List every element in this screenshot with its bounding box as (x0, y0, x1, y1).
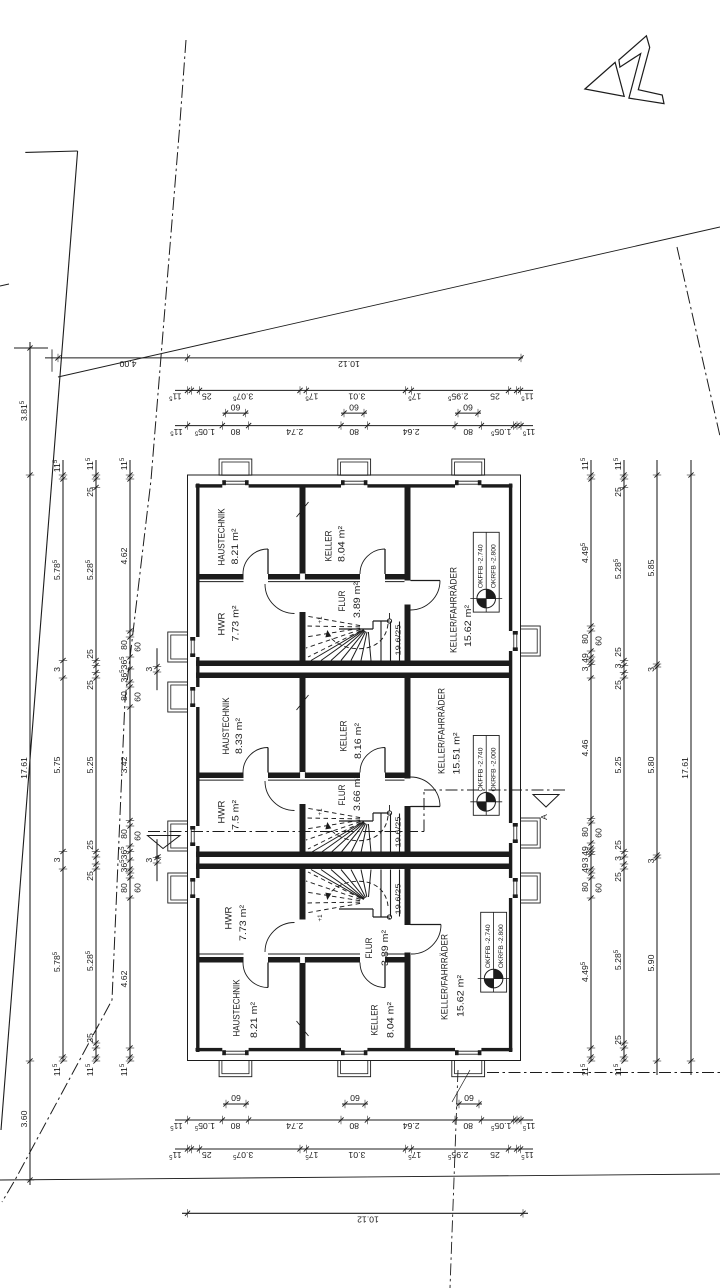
room label Keller/Fahrraeder U3 (439, 934, 466, 1020)
room label Flur U1 (337, 581, 363, 618)
svg-text:60: 60 (593, 883, 603, 893)
interior wall horizontal unit2 (200, 772, 405, 780)
svg-text:5.90: 5.90 (646, 954, 656, 971)
svg-text:HAUSTECHNIK: HAUSTECHNIK (221, 697, 232, 754)
svg-text:25: 25 (613, 647, 623, 657)
svg-text:3: 3 (580, 666, 590, 671)
svg-text:4.46: 4.46 (580, 739, 590, 756)
svg-text:80: 80 (231, 1121, 241, 1131)
svg-text:60: 60 (593, 828, 603, 838)
exterior wall bottom inner leaf (196, 1048, 513, 1051)
room label Keller U3 (369, 1001, 396, 1038)
window left HWR U1 with light well (168, 632, 195, 662)
svg-text:5.80: 5.80 (646, 756, 656, 773)
svg-text:HAUSTECHNIK: HAUSTECHNIK (216, 508, 227, 565)
dimension chain top window spacing (170, 421, 536, 436)
svg-text:7.73 m²: 7.73 m² (230, 605, 241, 642)
svg-text:KELLER/FAHRRÄDER: KELLER/FAHRRÄDER (436, 688, 447, 774)
window right KF U3 with light well (513, 873, 540, 903)
svg-text:80: 80 (119, 691, 129, 701)
svg-text:3.66 m²: 3.66 m² (352, 774, 363, 811)
svg-text:60: 60 (349, 402, 359, 412)
door Haustechnik U3 (243, 963, 268, 988)
wall A unit2 stair stub (300, 804, 306, 852)
svg-text:25: 25 (85, 840, 95, 850)
door Keller U3 (360, 963, 385, 988)
wall B unit2 lower (405, 806, 411, 852)
svg-text:OKFFB -2.740: OKFFB -2.740 (478, 544, 485, 589)
exterior wall right inner leaf (509, 484, 512, 1053)
svg-text:OKFFB -2.740: OKFFB -2.740 (485, 924, 492, 969)
svg-text:2.74: 2.74 (286, 1121, 303, 1131)
svg-text:3.89 m²: 3.89 m² (380, 929, 391, 966)
north arrow N glyph (619, 36, 664, 104)
svg-text:KELLER: KELLER (338, 720, 349, 751)
window left Haustechnik U2 with light well (168, 682, 195, 712)
svg-text:25: 25 (613, 872, 623, 882)
svg-text:3.01: 3.01 (348, 392, 365, 402)
window W1 bottom (Haustechnik U3) with light well (219, 1050, 252, 1077)
dimension chain bottom room widths (169, 1145, 534, 1160)
svg-text:8.21 m²: 8.21 m² (230, 528, 241, 565)
svg-text:15.51 m²: 15.51 m² (451, 732, 462, 775)
svg-text:OKRFB -2.800: OKRFB -2.800 (491, 544, 498, 589)
svg-text:60: 60 (350, 1093, 360, 1103)
dimension chain left party joints (3) (144, 648, 161, 881)
svg-text:8.33 m²: 8.33 m² (234, 717, 245, 754)
dimension chain left unit heights (52, 459, 67, 1076)
svg-text:60: 60 (593, 636, 603, 646)
svg-text:80: 80 (231, 427, 241, 437)
svg-text:5.75: 5.75 (52, 756, 62, 773)
room label Keller U1 (323, 525, 347, 562)
window W1 top (Haustechnik U1) with light well (219, 459, 252, 485)
svg-text:4.00: 4.00 (119, 359, 136, 369)
room label Keller/Fahrraeder U2 (436, 688, 462, 775)
svg-text:15.62 m²: 15.62 m² (455, 974, 466, 1017)
svg-text:60: 60 (231, 402, 241, 412)
svg-text:80: 80 (463, 1121, 473, 1131)
svg-text:7.5 m²: 7.5 m² (230, 799, 241, 830)
svg-text:80: 80 (119, 883, 129, 893)
svg-text:3: 3 (144, 667, 154, 672)
svg-text:4.62: 4.62 (119, 970, 129, 987)
dimension chain bottom total (10.12) (182, 1209, 528, 1224)
svg-text:25: 25 (202, 1150, 212, 1160)
level stamp U1 (OKFFB/OKRFB) (470, 532, 502, 612)
svg-text:3.89 m²: 3.89 m² (352, 581, 363, 618)
svg-text:KELLER/FAHRRÄDER: KELLER/FAHRRÄDER (448, 567, 459, 653)
svg-text:+1: +1 (317, 808, 324, 816)
window W2 top (Keller U1) with light well (338, 459, 371, 485)
svg-text:80: 80 (463, 427, 473, 437)
svg-text:5.25: 5.25 (85, 756, 95, 773)
window left HWR U3 with light well (168, 873, 195, 903)
svg-text:17.61: 17.61 (680, 757, 690, 779)
leader line at bottom light well (452, 1070, 470, 1102)
window right KF U1 with light well (513, 626, 540, 656)
svg-text:A: A (539, 814, 549, 820)
north arrow triangle (585, 62, 624, 96)
svg-text:3: 3 (52, 857, 62, 862)
stair unit3 (winder, 19.6/25) (306, 870, 403, 922)
shaft mark unit2 (297, 695, 309, 710)
door Haustechnik U1 (243, 549, 268, 574)
room label HWR U1 (216, 605, 241, 642)
svg-text:3: 3 (646, 858, 656, 863)
window W2 bottom (Keller U3) with light well (338, 1050, 371, 1077)
svg-text:3: 3 (580, 857, 590, 862)
svg-text:7.73 m²: 7.73 m² (238, 904, 249, 941)
room label Flur U2 (337, 774, 363, 811)
party wall 2 (double leaf) (196, 852, 512, 870)
svg-text:KELLER: KELLER (323, 530, 334, 561)
level stamp U2 (OKFFB/OKRFB) (470, 736, 502, 816)
svg-text:HWR: HWR (216, 800, 227, 823)
interior wall horizontal unit3 (200, 954, 405, 963)
site boundary diagonal line upper (solid) (58, 227, 720, 377)
door Keller U2 (360, 748, 385, 773)
wall B unit2 upper (405, 678, 411, 779)
shaft mark unit1 (297, 502, 309, 517)
svg-text:80: 80 (349, 1121, 359, 1131)
dimension chain top window widths (60) (223, 402, 482, 417)
svg-text:OKRFB -2.000: OKRFB -2.000 (491, 747, 498, 792)
svg-text:60: 60 (231, 1093, 241, 1103)
svg-text:25: 25 (613, 680, 623, 690)
room label Haustechnik U1 (216, 508, 241, 565)
svg-text:19.6/25: 19.6/25 (394, 884, 403, 915)
exterior wall top inner leaf (196, 484, 513, 487)
interior wall horizontal unit1 (200, 574, 405, 582)
window right KF U2 with light well (513, 818, 540, 848)
svg-text:FLUR: FLUR (337, 590, 348, 611)
svg-text:3: 3 (613, 856, 623, 861)
dimension chain bottom window widths (60) (223, 1093, 482, 1108)
section marker A left (148, 836, 181, 860)
svg-text:80: 80 (349, 427, 359, 437)
svg-text:KELLER/FAHRRÄDER: KELLER/FAHRRÄDER (439, 934, 450, 1020)
svg-text:5.85: 5.85 (646, 559, 656, 576)
small boundary tick left edge (0, 284, 9, 286)
svg-text:25: 25 (85, 871, 95, 881)
svg-text:60: 60 (132, 831, 142, 841)
svg-text:5.25: 5.25 (613, 756, 623, 773)
dimension chain top total (4.00 / 10.12) (45, 354, 524, 369)
room label Haustechnik U2 (221, 697, 245, 754)
svg-text:19.6/25: 19.6/25 (394, 625, 403, 656)
window left HWR U2 with light well (168, 821, 195, 851)
wall A unit2 upper (300, 678, 306, 773)
svg-text:8.16 m²: 8.16 m² (353, 722, 364, 759)
svg-text:HWR: HWR (216, 612, 227, 635)
dimension chain left window spacing (80/60) (119, 457, 143, 1076)
dimension chain left room depths (85, 457, 100, 1076)
svg-text:49: 49 (580, 846, 590, 856)
door Keller/Fahrraeder U2 (411, 777, 441, 807)
door Keller U1 (360, 549, 385, 574)
room label Haustechnik U3 (231, 979, 260, 1038)
dimension chain left outer (3.81/17.61/3.60) (19, 342, 34, 1185)
site boundary line left (solid) (1, 151, 78, 1130)
svg-text:3: 3 (144, 858, 154, 863)
dimension chain bottom window spacing (170, 1116, 536, 1131)
svg-text:3: 3 (646, 667, 656, 672)
svg-text:60: 60 (132, 642, 142, 652)
wall A unit1 upper (Haustechnik/Keller) (300, 488, 306, 575)
section line A-A (dash-dot with jog) (148, 790, 565, 832)
site line horizontal bottom (solid) (0, 1174, 720, 1180)
svg-text:49: 49 (580, 863, 590, 873)
level stamp U3 (OKFFB/OKRFB) (478, 912, 510, 992)
chain L1 top extension bar (14, 347, 48, 349)
svg-text:60: 60 (132, 692, 142, 702)
svg-text:25: 25 (85, 487, 95, 497)
svg-text:3.42: 3.42 (119, 756, 129, 773)
witness line at 4.00 left tick (51, 349, 53, 371)
wall A unit3 lower (300, 963, 306, 1049)
stair unit1 (winder, 19.6/25) (306, 613, 403, 661)
door Keller/Fahrraeder U3 (411, 925, 442, 955)
svg-text:3: 3 (52, 667, 62, 672)
dimension chain right total (17.61) (680, 460, 695, 1075)
svg-text:3: 3 (613, 663, 623, 668)
dimension chain top room widths (169, 386, 534, 401)
section marker A right (533, 795, 559, 820)
room label HWR U2 (216, 799, 241, 830)
door HWR U3 (arc only) (265, 923, 295, 953)
svg-text:60: 60 (464, 1093, 474, 1103)
svg-text:2.64: 2.64 (403, 427, 420, 437)
utility dash-dot line bottom right vertical (450, 1070, 458, 1288)
svg-text:+1: +1 (317, 914, 324, 922)
dimension chain right window spacing (80/60) (580, 457, 604, 1076)
svg-text:25: 25 (202, 392, 212, 402)
svg-text:HWR: HWR (223, 906, 234, 929)
svg-text:25: 25 (85, 1033, 95, 1043)
svg-text:25: 25 (85, 680, 95, 690)
window W3 bottom (Keller/Fahrraeder U3) with light well (452, 1050, 485, 1077)
svg-text:FLUR: FLUR (364, 937, 375, 958)
svg-text:49: 49 (580, 653, 590, 663)
room label Flur U3 (364, 929, 391, 966)
dimension chain right unit heights (646, 460, 661, 1075)
exterior wall left inner leaf (196, 484, 199, 1053)
svg-text:25: 25 (490, 1150, 500, 1160)
wall B unit1 lower (405, 605, 411, 661)
svg-text:+1: +1 (317, 616, 324, 624)
svg-text:10.12: 10.12 (338, 359, 360, 369)
door HWR U1 (arc only) (265, 584, 295, 614)
svg-text:80: 80 (580, 882, 590, 892)
room label Keller/Fahrraeder U1 (448, 567, 474, 653)
svg-text:80: 80 (580, 634, 590, 644)
utility dash-dot line bottom right horizontal (487, 1072, 720, 1074)
wall B unit3 upper (405, 869, 411, 925)
svg-text:80: 80 (580, 827, 590, 837)
site boundary dash-dot line right (677, 247, 720, 445)
stair unit2 (winder, 19.6/25) (306, 805, 403, 853)
site boundary dash-dot line middle (2, 40, 186, 1202)
door Haustechnik U2 (243, 748, 268, 773)
svg-text:KELLER: KELLER (369, 1004, 380, 1035)
svg-text:8.04 m²: 8.04 m² (385, 1001, 396, 1038)
svg-text:3.01: 3.01 (348, 1150, 365, 1160)
svg-text:OKRFB -2.800: OKRFB -2.800 (498, 924, 505, 969)
door Keller/Fahrraeder U1 (411, 581, 441, 611)
svg-text:4.62: 4.62 (119, 547, 129, 564)
svg-text:25: 25 (490, 392, 500, 402)
svg-text:80: 80 (119, 640, 129, 650)
svg-text:2.64: 2.64 (403, 1121, 420, 1131)
svg-text:25: 25 (85, 649, 95, 659)
window W3 top (Keller/Fahrraeder U1) with light well (452, 459, 485, 485)
room label HWR U3 (223, 904, 249, 941)
dimension chain right room depths (613, 457, 628, 1076)
svg-text:8.21 m²: 8.21 m² (249, 1001, 260, 1038)
shaft mark unit3 (297, 1021, 309, 1036)
svg-text:25: 25 (613, 487, 623, 497)
svg-text:FLUR: FLUR (337, 784, 348, 805)
svg-text:17.61: 17.61 (19, 757, 29, 779)
svg-text:60: 60 (132, 883, 142, 893)
svg-text:25: 25 (613, 840, 623, 850)
site boundary fence corner top-left (25, 151, 77, 152)
svg-text:60: 60 (463, 402, 473, 412)
exterior wall outer line (188, 475, 521, 1061)
svg-text:2.74: 2.74 (286, 427, 303, 437)
svg-text:80: 80 (119, 829, 129, 839)
wall A unit1 stair stub (300, 612, 306, 661)
svg-text:3.60: 3.60 (19, 1110, 29, 1127)
svg-text:HAUSTECHNIK: HAUSTECHNIK (231, 979, 242, 1036)
svg-text:OKFFB -2.740: OKFFB -2.740 (478, 747, 485, 792)
door HWR U2 (arc only) (265, 781, 295, 811)
party wall 1 (double leaf) (196, 661, 512, 679)
svg-text:10.12: 10.12 (357, 1215, 379, 1225)
room label Keller U2 (338, 720, 364, 759)
wall B unit3 lower (405, 953, 411, 1049)
svg-text:25: 25 (613, 1035, 623, 1045)
svg-text:8.04 m²: 8.04 m² (336, 525, 347, 562)
wall B unit1 upper (Keller/KF) (405, 488, 411, 581)
svg-text:15.62 m²: 15.62 m² (463, 604, 474, 647)
wall A unit3 stair stub (300, 869, 306, 920)
